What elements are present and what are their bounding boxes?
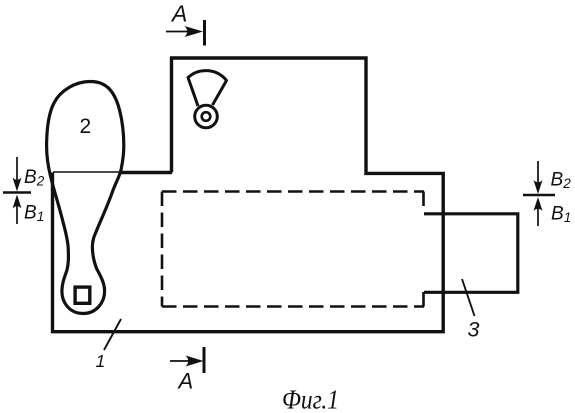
svg-text:A: A — [177, 369, 194, 394]
svg-text:1: 1 — [96, 351, 106, 371]
svg-text:3: 3 — [468, 318, 480, 342]
svg-text:2: 2 — [80, 115, 92, 138]
svg-text:A: A — [170, 1, 187, 27]
svg-text:Фиг.1: Фиг.1 — [282, 385, 339, 413]
